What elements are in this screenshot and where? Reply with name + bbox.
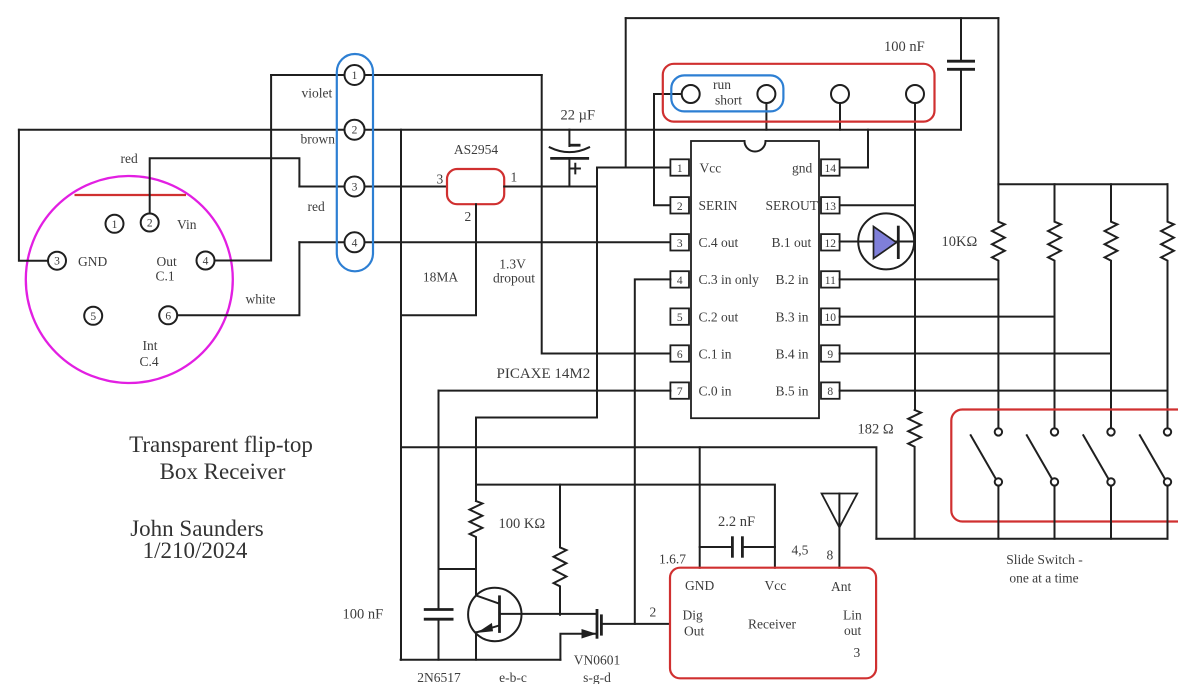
svg-text:dropout: dropout	[493, 271, 535, 286]
svg-text:short: short	[715, 93, 742, 108]
svg-text:1: 1	[352, 70, 358, 82]
slide switch red box	[951, 410, 1178, 522]
svg-text:B.3 in: B.3 in	[776, 309, 809, 324]
svg-text:Ant: Ant	[831, 579, 851, 594]
svg-text:AS2954: AS2954	[454, 142, 499, 157]
svg-text:9: 9	[827, 349, 833, 361]
DIN connector circle J1	[26, 176, 233, 383]
Q1 emitter diagonal	[477, 626, 499, 633]
svg-text:5: 5	[677, 312, 683, 324]
wire: bottom ground rail	[401, 659, 561, 661]
J2 pin 4	[345, 232, 365, 252]
switch SW2	[1027, 428, 1058, 539]
svg-text:gnd: gnd	[792, 160, 813, 175]
J2 pin 2	[345, 120, 365, 140]
LED D1 circle	[840, 241, 915, 243]
Q2 source arrow	[582, 629, 597, 639]
svg-text:one at a time: one at a time	[1009, 571, 1078, 586]
IC pin box 13	[821, 197, 840, 213]
svg-text:10KΩ: 10KΩ	[942, 234, 978, 250]
Q2 source lead	[560, 634, 597, 660]
svg-text:1: 1	[511, 170, 518, 185]
resistor R6 100K	[470, 501, 483, 595]
wire: Vcc chain down-left-down to 100K	[476, 168, 597, 502]
svg-text:2: 2	[465, 209, 472, 224]
svg-text:Vin: Vin	[177, 217, 197, 232]
svg-text:SEROUT: SEROUT	[766, 198, 819, 213]
IC pin box 5	[670, 308, 689, 324]
svg-text:14: 14	[825, 163, 837, 175]
Q1 emitter lead down	[475, 632, 477, 659]
wire: header c2 to ground rail	[765, 103, 767, 130]
wire: switch common rail	[876, 538, 1167, 540]
svg-text:1.3V: 1.3V	[499, 257, 526, 272]
DIN pin 4	[197, 252, 215, 270]
svg-text:8: 8	[827, 386, 833, 398]
Q2 channel bar	[600, 614, 603, 635]
wire: AS2954 output row	[504, 186, 597, 188]
svg-text:Vcc: Vcc	[700, 160, 722, 175]
svg-text:B.1 out: B.1 out	[772, 235, 812, 250]
svg-text:3: 3	[352, 182, 358, 194]
wire: receiver GND drop	[699, 447, 701, 567]
wire: IC pin13 SEROUT to c4 vertical	[840, 204, 915, 206]
LED D1 cathode bar	[897, 226, 900, 259]
IC pin box 14	[821, 159, 840, 175]
header circle c2	[757, 85, 775, 103]
svg-text:2N6517: 2N6517	[417, 670, 461, 684]
wire: DIN pin3 GND left to brown rail	[19, 130, 57, 261]
svg-text:Out: Out	[157, 254, 177, 269]
wire: C.0 branch down x=438.5	[438, 391, 440, 610]
DIN pin 1	[106, 215, 124, 233]
wire: Vcc drop to IC pin1 row	[625, 18, 627, 167]
wire: top Vcc rail	[626, 17, 999, 19]
svg-text:Dig: Dig	[683, 608, 704, 623]
wire: SERIN from header c1	[654, 94, 682, 205]
header J3 red box	[663, 64, 935, 122]
IC pin box 12	[821, 234, 840, 250]
svg-text:white: white	[246, 292, 276, 307]
resistor R4 10K	[1161, 184, 1174, 428]
wire: Vcc rail drop to resistor rail	[998, 18, 1167, 184]
svg-text:Out: Out	[684, 624, 704, 639]
svg-text:Vcc: Vcc	[765, 578, 787, 593]
svg-text:C.4: C.4	[140, 354, 159, 369]
svg-text:11: 11	[825, 275, 836, 287]
svg-text:2: 2	[147, 218, 153, 230]
Q1 collector diagonal	[476, 595, 498, 603]
svg-text:e-b-c: e-b-c	[499, 670, 527, 684]
svg-text:4: 4	[677, 275, 683, 287]
IC pin box 6	[670, 345, 689, 361]
wire: IC pin14 gnd up to ground rail	[840, 130, 868, 168]
transistor Q1 2N6517	[468, 588, 521, 641]
wire: IC pin1 Vcc row	[597, 167, 670, 169]
IC pin box 11	[821, 271, 840, 287]
wire: header c4 down to 182 ohm	[914, 103, 916, 411]
svg-text:SERIN: SERIN	[699, 198, 738, 213]
wire: red row to AS2954 pin3	[299, 186, 447, 188]
svg-text:2: 2	[650, 605, 657, 620]
IC pin box 3	[670, 234, 689, 250]
svg-text:C.2 out: C.2 out	[699, 309, 739, 324]
capacitor C1 22uF	[568, 130, 570, 146]
svg-text:s-g-d: s-g-d	[583, 670, 611, 684]
svg-text:B.4 in: B.4 in	[776, 346, 809, 361]
wire: C.0 branch to collector node	[439, 568, 477, 570]
svg-text:3: 3	[677, 238, 683, 250]
wire: IC pin8 B.5 to resistor 4	[840, 390, 1168, 392]
capacitor C2 100nF top right	[960, 18, 962, 60]
IC U1 PICAXE 14M2 body	[691, 141, 819, 418]
svg-text:6: 6	[165, 310, 171, 322]
svg-text:C.1: C.1	[156, 269, 175, 284]
header circle c1	[682, 85, 700, 103]
header circle c3	[831, 85, 849, 103]
antenna symbol	[838, 494, 840, 568]
svg-text:182 Ω: 182 Ω	[858, 422, 894, 438]
DIN pin 3	[48, 252, 66, 270]
svg-text:2: 2	[352, 125, 358, 137]
svg-text:B.2 in: B.2 in	[776, 272, 809, 287]
J2 pin 3	[345, 177, 365, 197]
svg-text:red: red	[308, 199, 325, 214]
resistor R1 10K	[992, 184, 1005, 428]
svg-text:12: 12	[825, 238, 837, 250]
svg-text:5: 5	[90, 311, 96, 323]
wire: white row to IC pin3 C.4 out	[299, 241, 670, 243]
wire: header c3 to ground rail	[839, 103, 841, 130]
DIN pin 5	[84, 307, 102, 325]
MOSFET Q2 VN0601 gate bar	[596, 609, 599, 639]
svg-text:1/210/2024: 1/210/2024	[143, 538, 248, 563]
LED D1 anode triangle	[874, 227, 897, 259]
svg-text:6: 6	[677, 349, 683, 361]
resistor R2 10K	[1048, 184, 1061, 428]
svg-text:C.1 in: C.1 in	[699, 346, 732, 361]
svg-text:3: 3	[437, 172, 444, 187]
Q1 emitter arrow	[477, 623, 493, 633]
svg-text:13: 13	[825, 201, 837, 213]
switch SW1	[971, 428, 1002, 539]
svg-text:4: 4	[352, 237, 358, 249]
wire: ground vertical x=401	[400, 130, 402, 660]
DIN pin 6	[159, 306, 177, 324]
svg-text:18MA: 18MA	[423, 270, 459, 285]
IC pin box 10	[821, 308, 840, 324]
header circle c4	[906, 85, 924, 103]
resistor R5 182 ohm	[908, 410, 921, 539]
svg-text:8: 8	[827, 548, 834, 563]
IC pin box 8	[821, 382, 840, 398]
Q1 base bar	[498, 595, 501, 633]
svg-text:1: 1	[112, 219, 118, 231]
svg-text:Slide Switch -: Slide Switch -	[1006, 552, 1083, 567]
svg-text:out: out	[844, 623, 862, 638]
wire: violet row from corner to C.1 drop	[271, 74, 542, 76]
svg-text:1.6.7: 1.6.7	[659, 552, 686, 567]
svg-text:VN0601: VN0601	[574, 653, 621, 668]
svg-text:1: 1	[677, 163, 683, 175]
wire: brown/ground rail y=130	[19, 129, 961, 131]
connector J2 blue outline	[337, 54, 373, 271]
switch SW3	[1083, 428, 1114, 539]
capacitor C4 2.2nF	[700, 546, 733, 548]
IC pin box 7	[670, 382, 689, 398]
svg-text:Transparent flip-top: Transparent flip-top	[129, 432, 313, 457]
wire: violet drop to DIN pin4	[206, 75, 272, 261]
svg-text:C.0 in: C.0 in	[699, 383, 732, 398]
svg-text:C.4 out: C.4 out	[699, 235, 739, 250]
svg-text:violet: violet	[302, 86, 333, 101]
J2 pin 1	[345, 65, 365, 85]
wire: IC pin10 B.3 to resistor 2	[840, 316, 1055, 318]
receiver module red box	[670, 568, 876, 679]
svg-text:PICAXE 14M2: PICAXE 14M2	[497, 366, 591, 382]
resistor R3 10K	[1105, 184, 1118, 428]
wire: Vcc distribution row y=484.6	[476, 485, 775, 568]
IC pin box 4	[670, 271, 689, 287]
Q2 drain lead to receiver Dig Out	[601, 623, 670, 625]
svg-text:2: 2	[677, 201, 683, 213]
wire: ground rail y=447	[401, 447, 876, 538]
IC pin box 1	[670, 159, 689, 175]
wire: Q1 base lead to MOSFET gate	[500, 613, 598, 615]
svg-text:100 nF: 100 nF	[343, 607, 384, 623]
svg-text:red: red	[121, 151, 138, 166]
red keying line inside DIN connector	[75, 194, 187, 196]
wire: white wire DIN pin6 to white row	[168, 242, 299, 315]
svg-text:10: 10	[825, 312, 837, 324]
svg-text:GND: GND	[78, 254, 107, 269]
wire: C.1 drop from violet row to pin6 row	[542, 75, 671, 354]
svg-text:run: run	[713, 77, 731, 92]
wire: AS2954 pin2 down and left	[401, 204, 476, 315]
wire: red wire DIN pin2 up/right/down to red row	[150, 158, 300, 222]
svg-text:GND: GND	[685, 578, 714, 593]
switch SW4	[1140, 428, 1171, 539]
IC pin box 9	[821, 345, 840, 361]
wire: IC pin7 C.0 row	[439, 390, 671, 392]
wire: IC pin11 B.2 to resistor 1	[840, 278, 999, 280]
IC pin box 2	[670, 197, 689, 213]
svg-text:100 nF: 100 nF	[884, 39, 925, 55]
svg-text:C.3 in only: C.3 in only	[699, 272, 760, 287]
DIN pin 2	[141, 214, 159, 232]
header J3 blue box run/short	[671, 75, 783, 111]
svg-text:Int: Int	[143, 338, 158, 353]
wire: IC pin4 C.3 down to Dig Out row	[635, 279, 671, 624]
svg-text:Receiver: Receiver	[748, 617, 796, 632]
svg-text:3: 3	[854, 645, 861, 660]
svg-text:2.2 nF: 2.2 nF	[718, 514, 755, 530]
resistor R7 gate pulldown	[554, 485, 567, 615]
svg-text:Lin: Lin	[843, 608, 862, 623]
svg-text:Box Receiver: Box Receiver	[160, 459, 286, 484]
svg-text:4: 4	[203, 256, 209, 268]
wire: IC pin9 B.4 to resistor 3	[840, 353, 1111, 355]
svg-text:brown: brown	[301, 132, 336, 147]
svg-text:B.5 in: B.5 in	[776, 383, 809, 398]
capacitor C3 100nF bottom	[424, 608, 454, 611]
regulator U2 AS2954 red box	[447, 169, 504, 204]
svg-text:100 KΩ: 100 KΩ	[499, 516, 546, 532]
svg-text:3: 3	[54, 256, 60, 268]
svg-text:7: 7	[677, 386, 683, 398]
svg-text:22 µF: 22 µF	[561, 108, 596, 124]
svg-text:4,5: 4,5	[792, 543, 809, 558]
